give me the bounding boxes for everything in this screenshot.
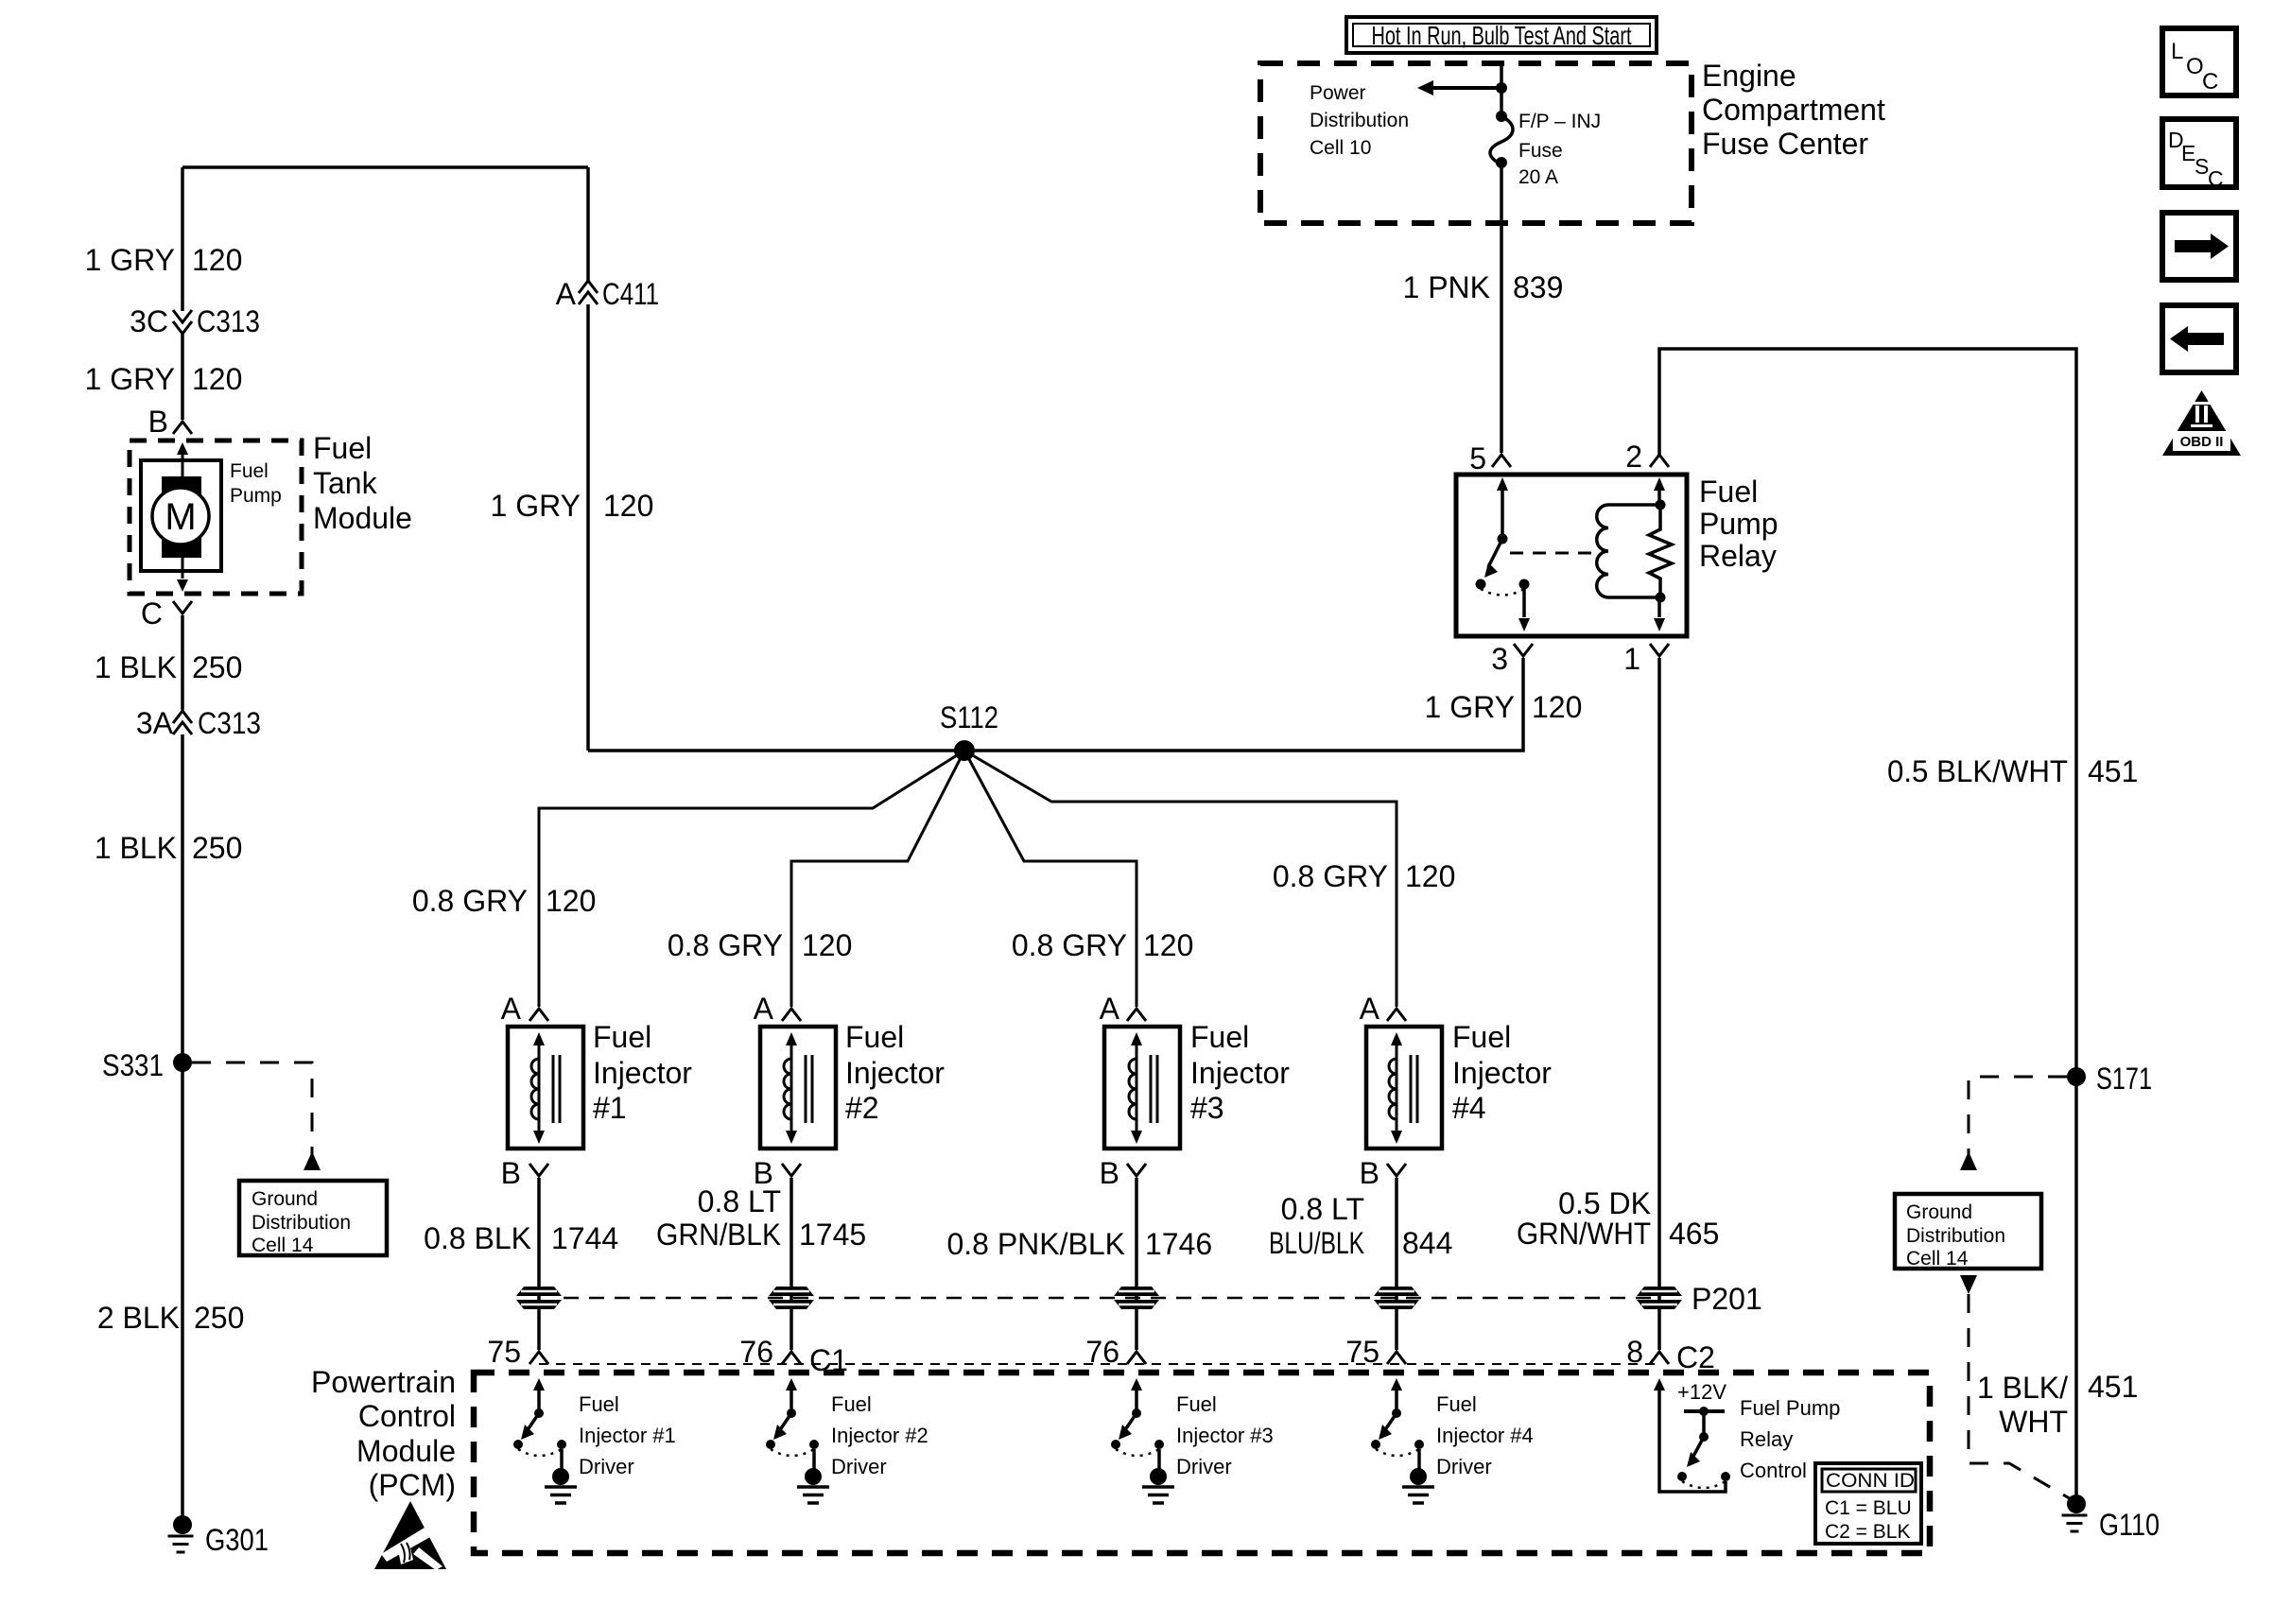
svg-text:S171: S171 — [2096, 1062, 2152, 1096]
label: Fuel Injector #2 — [845, 1020, 945, 1125]
label: 0.8 GRY 120 (injector #1) — [412, 884, 597, 918]
svg-text:0.8 GRY: 0.8 GRY — [668, 928, 783, 962]
wire: 1 BLK 250 from pin C to connector C313 (3A) — [181, 615, 184, 710]
label: Fuel Injector #1 Driver — [579, 1392, 676, 1478]
wire: 1 GRY 120 from C313 to fuel tank module pin B — [181, 334, 184, 420]
svg-text:C411: C411 — [602, 277, 659, 311]
label: 0.8 GRY 120 (injector #2) — [668, 928, 853, 962]
svg-text:0.8 LT: 0.8 LT — [698, 1184, 781, 1218]
node: junction dot to Power Distribution arrow — [1496, 82, 1507, 94]
back arrow icon box — [2162, 305, 2236, 372]
svg-text:S331: S331 — [102, 1048, 164, 1082]
wire: S112 fan branch to fuel injector #3 — [964, 751, 1136, 1007]
svg-text:Pump: Pump — [230, 485, 282, 507]
label: 0.5 DK GRN/WHT 465 — [1517, 1186, 1719, 1251]
label: 0.8 GRY 120 (injector #3) — [1012, 928, 1194, 962]
svg-text:Injector #4: Injector #4 — [1436, 1424, 1534, 1447]
inline connector P201 contact 3 — [1114, 1287, 1159, 1309]
ground G301 (dot and ground symbol) — [168, 1515, 194, 1552]
svg-text:120: 120 — [1143, 928, 1193, 962]
svg-text:Fuel: Fuel — [1190, 1020, 1249, 1054]
wire: 0.5 BLK/WHT 451 from relay pin 2 over the top to S171 and G110 — [1659, 349, 2076, 1504]
label: A C411 — [556, 277, 659, 311]
wire: injector #1 return 0.8 BLK 1744 to PCM pin 75 — [537, 1178, 541, 1350]
svg-text:Control: Control — [358, 1399, 456, 1433]
svg-text:Control: Control — [1740, 1459, 1807, 1482]
fuel injector #4 coil symbol — [1366, 1027, 1442, 1149]
svg-text:M: M — [165, 496, 196, 538]
svg-text:120: 120 — [1405, 859, 1455, 893]
wire: 1 PNK 839 from fuse to relay pin 5 — [1500, 164, 1503, 453]
svg-text:3C: 3C — [130, 304, 168, 338]
wire: relay pin 1 control 0.5 DK GRN/WHT 465 to PCM pin 8 C2 — [1657, 658, 1661, 1350]
svg-text:839: 839 — [1513, 270, 1563, 304]
svg-text:S112: S112 — [940, 700, 998, 734]
svg-text:Tank: Tank — [313, 466, 378, 500]
svg-text:A: A — [754, 992, 774, 1026]
fuel injector #1 coil symbol — [508, 1027, 583, 1149]
fuel pump relay K1 box — [1456, 475, 1687, 636]
svg-text:Driver: Driver — [831, 1455, 887, 1478]
svg-text:Fuel: Fuel — [230, 460, 269, 482]
svg-text:Fuel: Fuel — [579, 1392, 619, 1416]
label: 1 PNK 839 — [1403, 270, 1564, 304]
connector C313 pin 3A (inline, chevrons up) — [173, 711, 192, 734]
svg-text:A: A — [501, 992, 522, 1026]
wire: injector #2 return 0.8 LT GRN/BLK 1745 to PCM pin 76 C1 — [789, 1178, 793, 1350]
svg-text:Injector: Injector — [1190, 1056, 1290, 1090]
relay switch (movable contact from pin 5 to pin 3) — [1476, 477, 1531, 631]
label: 0.5 BLK/WHT 451 — [1887, 754, 2138, 788]
reference arrow into Ground Distribution box (left) — [304, 1151, 321, 1170]
label: 2 BLK 250 — [97, 1301, 245, 1335]
svg-text:Fuel Pump: Fuel Pump — [1740, 1396, 1840, 1420]
svg-text:Powertrain: Powertrain — [311, 1365, 456, 1399]
svg-text:C313: C313 — [197, 304, 260, 338]
relay actuation dashed link — [1510, 552, 1596, 555]
svg-text:Fuel: Fuel — [1436, 1392, 1477, 1416]
svg-text:A: A — [556, 277, 577, 311]
svg-text:Distribution: Distribution — [1906, 1225, 2005, 1247]
svg-text:120: 120 — [1532, 690, 1582, 724]
svg-text:Driver: Driver — [1176, 1455, 1232, 1478]
splice S112 junction dot — [954, 740, 975, 761]
relay pin 2 (chevron and label) — [1625, 440, 1669, 474]
label: Fuel Injector #1 — [593, 1020, 692, 1125]
svg-text:1 PNK: 1 PNK — [1403, 270, 1490, 304]
PCM pin 76 chevron at x=837 — [739, 1335, 801, 1369]
label: 0.8 LT GRN/BLK 1745 — [656, 1184, 866, 1252]
injector pin A at x=837 (chevron and label) — [754, 992, 801, 1026]
PCM fuel injector #3 driver (switch to ground) — [1111, 1378, 1174, 1503]
label: Fuel Injector #3 Driver — [1176, 1392, 1274, 1478]
injector pin B at x=570 (chevron and label) — [501, 1156, 548, 1190]
svg-text:844: 844 — [1402, 1226, 1452, 1260]
svg-text:Injector: Injector — [593, 1056, 692, 1090]
svg-text:3A: 3A — [136, 706, 174, 740]
inline connector P201 contact 2 — [769, 1287, 814, 1309]
relay coil — [1597, 505, 1660, 597]
connector C313 pin 3C (inline, chevrons down) — [173, 310, 192, 334]
svg-text:GRN/BLK: GRN/BLK — [656, 1218, 781, 1252]
PCM fuel injector #2 driver (switch to ground) — [766, 1378, 829, 1503]
svg-text:Fuel: Fuel — [845, 1020, 904, 1054]
Powertrain Control Module dashed box — [474, 1373, 1930, 1553]
label: Powertrain Control Module (PCM) — [311, 1365, 456, 1502]
PCM pin 76 chevron at x=1202 — [1085, 1335, 1146, 1369]
svg-text:#1: #1 — [593, 1091, 627, 1125]
inline connector P201 contact 4 — [1374, 1287, 1419, 1309]
Ground Distribution Cell 14 reference box (left) — [239, 1181, 387, 1255]
reference arrow to Power Distribution Cell 10 — [1417, 80, 1501, 95]
forward arrow icon box — [2162, 213, 2236, 280]
svg-text:F/P – INJ: F/P – INJ — [1518, 111, 1601, 132]
svg-text:0.5 BLK/WHT: 0.5 BLK/WHT — [1887, 754, 2068, 788]
connector C411 pin A (inline, chevrons up) — [579, 281, 598, 304]
pin C of fuel tank module (chevron) — [173, 601, 192, 613]
svg-text:Ground: Ground — [252, 1188, 318, 1210]
label: 1 GRY 120 (C411 branch) — [491, 489, 654, 523]
dashed reference wire from box down to ground G110 — [1969, 1294, 2073, 1500]
svg-text:5: 5 — [1469, 441, 1486, 475]
svg-text:Engine: Engine — [1702, 59, 1796, 93]
svg-text:A: A — [1100, 992, 1120, 1026]
svg-text:A: A — [1360, 992, 1380, 1026]
svg-text:250: 250 — [194, 1301, 244, 1335]
svg-text:Fuse: Fuse — [1518, 140, 1563, 162]
svg-text:1 GRY: 1 GRY — [85, 243, 175, 277]
label: Power Distribution Cell 10 — [1310, 82, 1409, 159]
label: 1 GRY 120 (second) — [85, 362, 243, 396]
svg-text:1745: 1745 — [799, 1218, 866, 1252]
label: 1 BLK 250 (first) — [95, 650, 243, 684]
svg-text:1: 1 — [1623, 642, 1640, 676]
svg-text:Fuel: Fuel — [1176, 1392, 1217, 1416]
dashed harness line through connector P201 — [564, 1297, 1659, 1300]
reference arrow into Ground Distribution box (right) — [1960, 1151, 1977, 1170]
inline connector P201 contact 5 — [1637, 1287, 1682, 1309]
svg-text:Injector #2: Injector #2 — [831, 1424, 928, 1447]
svg-text:L: L — [2171, 39, 2183, 64]
svg-text:Injector: Injector — [845, 1056, 945, 1090]
label: Ground Distribution Cell 14 (left) — [252, 1188, 351, 1256]
svg-text:#4: #4 — [1452, 1091, 1486, 1125]
svg-text:2: 2 — [1625, 440, 1642, 474]
wire: left vertical, horizontal feed down to connector C313 (3C) — [181, 167, 184, 311]
svg-text:76: 76 — [739, 1335, 773, 1369]
svg-text:OBD II: OBD II — [2180, 434, 2224, 450]
splice S331 junction dot — [173, 1053, 192, 1072]
svg-text:CONN ID: CONN ID — [1826, 1470, 1915, 1492]
label: 0.8 GRY 120 (injector #4) — [1273, 859, 1456, 893]
fuel pump motor M1 (motor symbol in box) — [141, 442, 221, 592]
svg-text:1 GRY: 1 GRY — [85, 362, 175, 396]
svg-text:B: B — [1360, 1156, 1379, 1190]
label: 0.8 LT BLU/BLK 844 — [1269, 1192, 1452, 1260]
label: Fuel Injector #4 — [1452, 1020, 1552, 1125]
svg-text:#2: #2 — [845, 1091, 879, 1125]
svg-text:GRN/WHT: GRN/WHT — [1517, 1217, 1651, 1251]
svg-text:3: 3 — [1491, 642, 1508, 676]
svg-text:451: 451 — [2088, 754, 2138, 788]
Ground Distribution Cell 14 reference box (right) — [1895, 1194, 2041, 1269]
svg-text:75: 75 — [487, 1335, 521, 1369]
svg-text:451: 451 — [2088, 1370, 2138, 1404]
svg-text:Driver: Driver — [579, 1455, 634, 1478]
PCM fuel injector #1 driver (switch to ground) — [513, 1378, 577, 1503]
injector pin A at x=1202 (chevron and label) — [1100, 992, 1146, 1026]
wire: injector #3 return 0.8 PNK/BLK 1746 to PCM pin 76 — [1135, 1178, 1138, 1350]
svg-text:G301: G301 — [205, 1523, 269, 1557]
reference arrow out of Ground Distribution box (down) — [1960, 1275, 1977, 1294]
svg-text:C: C — [2202, 69, 2218, 95]
svg-text:C: C — [141, 596, 163, 631]
CONN ID legend table — [1815, 1463, 1921, 1544]
svg-text:+12V: +12V — [1677, 1380, 1726, 1404]
Engine Compartment Fuse Center dashed box — [1260, 63, 1692, 223]
injector pin B at x=837 (chevron and label) — [754, 1156, 801, 1190]
fuel injector #3 coil symbol — [1104, 1027, 1180, 1149]
svg-text:Hot In Run, Bulb Test And Star: Hot In Run, Bulb Test And Start — [1372, 21, 1632, 50]
inline connector P201 contact 1 — [516, 1287, 562, 1309]
svg-text:O: O — [2186, 54, 2204, 79]
injector pin A at x=1477 (chevron and label) — [1360, 992, 1406, 1026]
svg-text:0.8 BLK: 0.8 BLK — [424, 1221, 531, 1255]
svg-text:120: 120 — [802, 928, 852, 962]
svg-text:Injector #3: Injector #3 — [1176, 1424, 1274, 1447]
svg-text:Injector #1: Injector #1 — [579, 1424, 676, 1447]
fuse F/P - INJ 20 A (squiggle symbol with end dots) — [1490, 111, 1513, 168]
label: 0.8 PNK/BLK 1746 — [946, 1227, 1212, 1261]
svg-text:C2: C2 — [1676, 1340, 1715, 1374]
svg-text:Relay: Relay — [1699, 539, 1777, 573]
relay internal resistor (parallel with coil) — [1649, 477, 1672, 631]
svg-text:Fuel: Fuel — [593, 1020, 651, 1054]
svg-text:Fuse Center: Fuse Center — [1702, 127, 1868, 161]
svg-text:0.5 DK: 0.5 DK — [1558, 1186, 1651, 1220]
LOC icon box — [2162, 28, 2236, 95]
svg-text:120: 120 — [546, 884, 596, 918]
fuel injector #2 coil symbol — [760, 1027, 836, 1149]
svg-text:C313: C313 — [198, 706, 261, 740]
wire: 1 BLK 250 from C313 down to splice S331 and ground G301 — [181, 734, 184, 1525]
svg-text:0.8 PNK/BLK: 0.8 PNK/BLK — [946, 1227, 1125, 1261]
svg-text:WHT: WHT — [1999, 1405, 2068, 1439]
svg-text:120: 120 — [603, 489, 653, 523]
PCM fuel pump relay control driver (+12V switch) — [1654, 1378, 1730, 1492]
ground (inside PCM, driver #3) — [1150, 1468, 1167, 1485]
svg-text:Relay: Relay — [1740, 1427, 1793, 1451]
PCM pin 75 chevron at x=570 — [487, 1335, 548, 1369]
svg-text:1 GRY: 1 GRY — [491, 489, 581, 523]
label: F/P - INJ Fuse 20 A — [1518, 111, 1601, 188]
PCM fuel injector #4 driver (switch to ground) — [1371, 1378, 1434, 1503]
PCM pin 8 chevron at x=1755 — [1626, 1335, 1669, 1369]
svg-text:Power: Power — [1310, 82, 1366, 104]
svg-text:1 GRY: 1 GRY — [1425, 690, 1515, 724]
label: Fuel Pump Relay Control — [1740, 1396, 1840, 1482]
svg-text:B: B — [1100, 1156, 1119, 1190]
svg-text:B: B — [501, 1156, 521, 1190]
svg-text:120: 120 — [192, 362, 242, 396]
svg-text:1 BLK: 1 BLK — [95, 831, 177, 865]
ground (inside PCM, driver #2) — [805, 1468, 822, 1485]
label: Fuel Injector #4 Driver — [1436, 1392, 1534, 1478]
svg-text:G110: G110 — [2099, 1508, 2160, 1542]
relay pin 1 (chevron and label) — [1623, 642, 1669, 676]
svg-text:Ground: Ground — [1906, 1201, 1972, 1223]
svg-text:Cell 14: Cell 14 — [1906, 1248, 1969, 1270]
svg-text:1744: 1744 — [551, 1221, 618, 1255]
svg-text:Fuel: Fuel — [1452, 1020, 1511, 1054]
wire: vertical branch to connector C411 and splice S112 — [586, 167, 590, 281]
svg-text:Fuel: Fuel — [831, 1392, 872, 1416]
relay pin 5 (chevron and label) — [1469, 441, 1511, 475]
svg-text:1746: 1746 — [1145, 1227, 1212, 1261]
wire: 1 GRY 120 from C411 down to splice S112 line — [586, 304, 590, 751]
ESD sensitivity triangle symbol — [374, 1501, 446, 1570]
label: 1 BLK/ WHT 451 — [1977, 1370, 2138, 1439]
svg-text:P201: P201 — [1692, 1282, 1762, 1316]
label: 3C C313 — [130, 304, 260, 338]
DESC icon box — [2162, 119, 2236, 191]
wire: S112 fan branch to fuel injector #1 — [539, 751, 964, 1007]
svg-text:#3: #3 — [1190, 1091, 1224, 1125]
svg-text:(PCM): (PCM) — [369, 1468, 456, 1502]
wire: feed from hot tag into fuse — [1500, 63, 1503, 116]
svg-text:75: 75 — [1345, 1335, 1379, 1369]
label: Fuel Tank Module — [313, 431, 412, 535]
svg-text:Driver: Driver — [1436, 1455, 1492, 1478]
Hot In Run, Bulb Test And Start power tag box — [1346, 17, 1657, 53]
dashed reference wire from S331 to Ground Distribution Cell 14 — [192, 1063, 312, 1154]
label: Ground Distribution Cell 14 (right) — [1906, 1201, 2005, 1270]
svg-text:120: 120 — [192, 243, 242, 277]
label: 1 BLK 250 (second) — [95, 831, 243, 865]
label: Fuel Injector #2 Driver — [831, 1392, 928, 1478]
wire: S112 fan branch to fuel injector #4 — [964, 751, 1397, 1007]
svg-text:20 A: 20 A — [1518, 166, 1558, 188]
svg-text:C: C — [2208, 166, 2224, 191]
svg-text:Fuel: Fuel — [313, 431, 372, 465]
svg-text:Module: Module — [356, 1434, 456, 1468]
splice S171 junction dot — [2067, 1067, 2086, 1086]
svg-text:Injector: Injector — [1452, 1056, 1552, 1090]
label: 3A C313 — [136, 706, 261, 740]
svg-text:0.8 GRY: 0.8 GRY — [412, 884, 528, 918]
wire: S112 fan branch to fuel injector #2 — [791, 751, 964, 1007]
ground (inside PCM, driver #4) — [1410, 1468, 1427, 1485]
svg-text:Fuel: Fuel — [1699, 475, 1758, 509]
PCM pin 75 chevron at x=1477 — [1345, 1335, 1406, 1369]
svg-text:C2 = BLK: C2 = BLK — [1825, 1521, 1910, 1543]
dashed reference wire from S171 to Ground Distribution Cell 14 (right) — [1969, 1077, 2067, 1154]
label: Fuel Injector #3 — [1190, 1020, 1290, 1125]
svg-text:Distribution: Distribution — [1310, 110, 1409, 131]
svg-text:B: B — [148, 405, 168, 439]
wire: top horizontal feed from fuel-tank branch to C411 branch — [182, 165, 588, 169]
svg-text:0.8 GRY: 0.8 GRY — [1012, 928, 1127, 962]
fuel tank module dashed box — [130, 441, 302, 594]
svg-text:465: 465 — [1669, 1217, 1719, 1251]
wire: injector #4 return 0.8 LT BLU/BLK 844 to PCM pin 75 — [1395, 1178, 1398, 1350]
label: Fuel Pump Relay — [1699, 475, 1778, 573]
ground (inside PCM, driver #1) — [552, 1468, 569, 1485]
svg-text:0.8 GRY: 0.8 GRY — [1273, 859, 1388, 893]
thin dashed connector face line at PCM pins — [539, 1363, 1659, 1365]
label: Fuel Pump (small) — [230, 460, 282, 507]
svg-text:Pump: Pump — [1699, 507, 1778, 541]
svg-text:Cell 10: Cell 10 — [1310, 137, 1371, 159]
injector pin B at x=1477 (chevron and label) — [1360, 1156, 1406, 1190]
svg-text:250: 250 — [192, 650, 242, 684]
svg-text:Cell 14: Cell 14 — [252, 1235, 314, 1256]
svg-text:0.8 LT: 0.8 LT — [1281, 1192, 1364, 1226]
svg-text:Distribution: Distribution — [252, 1212, 351, 1234]
svg-text:C1 = BLU: C1 = BLU — [1825, 1497, 1912, 1519]
wire: 1 GRY 120 from relay pin 3 to splice S112 — [588, 658, 1523, 751]
svg-text:Compartment: Compartment — [1702, 93, 1885, 127]
pin B of fuel tank module (chevron) — [173, 422, 192, 434]
svg-text:BLU/BLK: BLU/BLK — [1269, 1226, 1364, 1260]
label: 0.8 BLK 1744 — [424, 1221, 618, 1255]
label: 1 GRY 120 (relay pin 3) — [1425, 690, 1583, 724]
OBD II warning triangle icon — [2162, 390, 2241, 456]
svg-text:1 BLK/: 1 BLK/ — [1977, 1371, 2068, 1405]
svg-text:76: 76 — [1085, 1335, 1119, 1369]
svg-text:2 BLK: 2 BLK — [97, 1301, 180, 1335]
injector pin A at x=570 (chevron and label) — [501, 992, 548, 1026]
svg-text:8: 8 — [1626, 1335, 1643, 1369]
label: Engine Compartment Fuse Center — [1702, 59, 1885, 161]
relay pin 3 (chevron and label) — [1491, 642, 1533, 676]
svg-text:250: 250 — [192, 831, 242, 865]
svg-text:Module: Module — [313, 501, 412, 535]
label: 1 GRY 120 (upper left) — [85, 243, 243, 277]
injector pin B at x=1202 (chevron and label) — [1100, 1156, 1146, 1190]
ground G110 (dot and ground symbol) — [2062, 1494, 2088, 1531]
svg-text:1 BLK: 1 BLK — [95, 650, 177, 684]
